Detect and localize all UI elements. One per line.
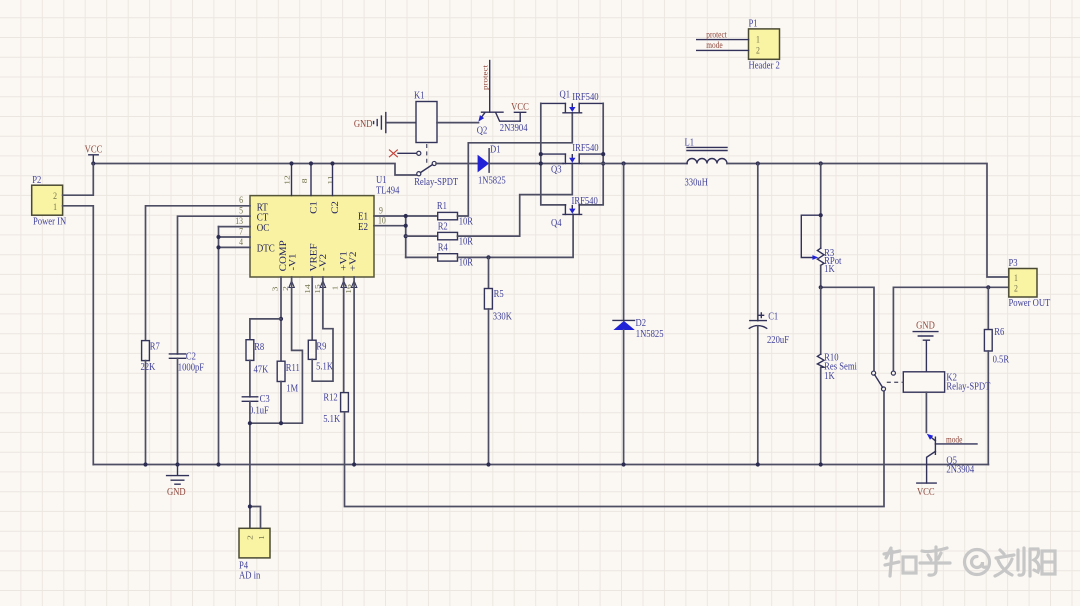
ground symbol (K1, rotated) xyxy=(354,113,386,133)
svg-text:TL494: TL494 xyxy=(376,185,400,197)
svg-text:14: 14 xyxy=(303,284,312,294)
wire P2 pin2 to VCC xyxy=(63,164,94,196)
svg-text:R11: R11 xyxy=(286,362,300,374)
svg-text:K1: K1 xyxy=(414,90,425,102)
connector P2 Power IN xyxy=(32,174,67,228)
svg-text:R1: R1 xyxy=(437,200,447,212)
svg-text:22K: 22K xyxy=(140,361,155,373)
svg-text:1: 1 xyxy=(257,535,266,540)
connector P3 Power OUT xyxy=(1009,257,1051,309)
svg-text:R12: R12 xyxy=(323,392,338,404)
wire to R8 xyxy=(250,319,281,340)
svg-text:1K: 1K xyxy=(824,370,835,382)
wire R9 loop to pin15 xyxy=(312,277,333,381)
no-connect X mark xyxy=(389,150,398,158)
transistor Q3 IRF540 xyxy=(551,142,599,175)
svg-text:GND: GND xyxy=(916,320,935,332)
svg-text:R5: R5 xyxy=(494,288,504,300)
svg-text:Power OUT: Power OUT xyxy=(1009,297,1051,309)
svg-text:VREF: VREF xyxy=(309,243,319,272)
svg-text:P2: P2 xyxy=(32,174,41,186)
U1 pin names top (rotated) xyxy=(309,201,340,214)
wire pin9 E1 row xyxy=(374,215,438,217)
svg-text:DTC: DTC xyxy=(257,243,275,255)
svg-text:1K: 1K xyxy=(824,263,835,275)
wire VCC rail to relay xyxy=(93,164,416,176)
svg-text:2: 2 xyxy=(756,45,760,56)
resistor R5 xyxy=(484,288,512,322)
wire R4 node to R5 xyxy=(486,255,490,259)
U1 pin names bottom (rotated) xyxy=(279,240,359,272)
svg-text:Relay-SPDT: Relay-SPDT xyxy=(414,176,458,188)
svg-text:VCC: VCC xyxy=(511,101,529,113)
svg-text:1: 1 xyxy=(1014,272,1018,283)
svg-text:IRF540: IRF540 xyxy=(572,142,598,154)
ground bus wire xyxy=(93,464,988,466)
svg-text:47K: 47K xyxy=(254,364,269,376)
wire X to switch throw xyxy=(398,152,417,154)
wire tie column xyxy=(405,216,407,257)
wire C2 to bus xyxy=(177,358,179,464)
dashed link K2 xyxy=(887,381,904,383)
svg-text:2N3904: 2N3904 xyxy=(500,122,528,134)
svg-text:R2: R2 xyxy=(438,221,448,233)
wire pin16 to bus xyxy=(353,277,355,465)
wire R3 bottom node xyxy=(821,287,874,371)
power port VCC (Q2) xyxy=(511,101,529,121)
wire R11 to node wire xyxy=(280,382,282,424)
wire Q1 left leg to left column xyxy=(541,102,566,104)
svg-text:Q2: Q2 xyxy=(477,125,488,137)
relay switch SPDT (K1) xyxy=(414,151,458,188)
svg-text:D1: D1 xyxy=(490,144,501,156)
wire R2 to Q3 gate xyxy=(458,164,573,237)
svg-text:2: 2 xyxy=(1014,283,1018,294)
svg-text:VCC: VCC xyxy=(85,144,103,156)
svg-text:protect: protect xyxy=(481,64,489,90)
wire pin5 CT to C2 xyxy=(178,216,251,354)
U1 pin names right xyxy=(358,211,368,233)
svg-text:-V2: -V2 xyxy=(319,254,329,271)
svg-text:Q3: Q3 xyxy=(551,164,562,176)
thermistor R10 Res Semi 1K xyxy=(817,287,857,466)
capacitor C2 xyxy=(169,351,204,374)
svg-text:1N5825: 1N5825 xyxy=(636,328,664,340)
wire node to P3 pin2 xyxy=(893,287,1008,371)
wire K2 to Q5 collector xyxy=(925,392,927,432)
svg-text:C1: C1 xyxy=(768,311,778,323)
svg-text:R7: R7 xyxy=(150,341,160,353)
U1 pin numbers right xyxy=(378,205,386,226)
wire R5 to bus xyxy=(488,309,490,465)
svg-text:10R: 10R xyxy=(459,257,474,269)
svg-text:COMP: COMP xyxy=(279,240,289,272)
connector P4 AD in xyxy=(239,528,270,581)
svg-text:2N3904: 2N3904 xyxy=(946,464,974,476)
svg-text:12: 12 xyxy=(282,175,291,184)
U1 pin numbers top (rotated) xyxy=(282,175,334,184)
svg-text:Header 2: Header 2 xyxy=(748,60,779,72)
svg-text:5.1K: 5.1K xyxy=(316,361,333,373)
relay coil K2 xyxy=(903,372,990,393)
svg-text:3: 3 xyxy=(270,287,279,292)
svg-text:0.5R: 0.5R xyxy=(993,354,1010,366)
svg-text:1000pF: 1000pF xyxy=(178,362,204,374)
svg-text:C1: C1 xyxy=(309,201,319,214)
capacitor C3 xyxy=(242,393,270,416)
svg-text:330uH: 330uH xyxy=(685,177,708,189)
svg-text:mode: mode xyxy=(706,41,723,51)
svg-text:mode: mode xyxy=(946,435,963,445)
svg-text:C3: C3 xyxy=(260,393,270,405)
svg-text:R9: R9 xyxy=(316,341,326,353)
transistor Q5 2N3904 xyxy=(927,434,975,483)
wire pin14 VREF to R9 xyxy=(311,277,313,340)
wire pin10 E2 xyxy=(374,225,406,227)
svg-text:C2: C2 xyxy=(331,201,341,214)
wire P2 pin1 to ground bus xyxy=(63,206,94,465)
resistor R9 xyxy=(308,340,333,373)
svg-text:11: 11 xyxy=(326,175,335,184)
svg-text:1N5825: 1N5825 xyxy=(478,175,506,187)
dashed link K1 to switch xyxy=(426,144,428,166)
wire L1 to P3 pin1 xyxy=(727,164,1009,278)
wire GND to K1 xyxy=(386,122,416,124)
diode D1 1N5825 xyxy=(478,144,506,187)
wire P4 pin2 jog xyxy=(250,507,261,529)
U1 pin names left xyxy=(257,202,275,255)
watermark 知乎 @刘阳 xyxy=(884,547,1055,576)
svg-text:1: 1 xyxy=(53,201,57,212)
svg-text:2: 2 xyxy=(53,190,57,201)
svg-text:P1: P1 xyxy=(748,18,757,30)
svg-text:Power IN: Power IN xyxy=(33,216,66,228)
wire switch pole to D1 xyxy=(436,163,478,165)
wire pin6 RT to R7 xyxy=(146,206,251,341)
svg-text:GND: GND xyxy=(167,486,186,498)
svg-text:+V1: +V1 xyxy=(339,251,349,271)
svg-text:Relay-SPDT: Relay-SPDT xyxy=(946,381,990,393)
wire R12 down to mode select line xyxy=(345,391,885,507)
svg-text:10R: 10R xyxy=(459,216,474,228)
wire Q3 legs xyxy=(541,153,603,155)
resistor R1 xyxy=(437,200,474,227)
svg-text:220uF: 220uF xyxy=(767,334,789,346)
wire protect to P1 xyxy=(697,39,749,41)
svg-text:OC: OC xyxy=(257,222,270,234)
U1 top pin wires 12,8,11 xyxy=(292,164,333,196)
resistor R11 xyxy=(277,361,300,395)
resistor R2 xyxy=(438,221,474,248)
wire Q1 right leg to right column xyxy=(579,102,603,104)
wire pin3 COMP column xyxy=(280,277,282,361)
svg-text:Q4: Q4 xyxy=(551,217,562,229)
svg-text:R8: R8 xyxy=(254,341,264,353)
wire K1 to Q2 emitter xyxy=(437,122,479,124)
svg-text:1: 1 xyxy=(330,286,339,291)
junction VCC rail xyxy=(91,161,95,165)
R3 wiper xyxy=(801,215,820,257)
resistor R4 xyxy=(438,242,474,269)
svg-text:2: 2 xyxy=(281,286,290,291)
svg-text:IRF540: IRF540 xyxy=(571,195,597,207)
wire R2 row xyxy=(406,235,438,237)
potentiometer R3 RPot 1K xyxy=(801,164,841,288)
relay switch SPDT (K2) xyxy=(872,371,896,391)
svg-text:R6: R6 xyxy=(994,326,1004,338)
power port VCC (Q5) xyxy=(917,483,936,498)
svg-text:GND: GND xyxy=(354,118,373,130)
svg-text:AD in: AD in xyxy=(239,570,260,582)
ground symbol GND (bus) xyxy=(167,465,189,499)
wire node y423 xyxy=(250,277,303,423)
U1 pin numbers bottom (rotated) xyxy=(270,284,352,294)
wire R8 to C3 xyxy=(249,360,251,396)
svg-text:P3: P3 xyxy=(1009,257,1018,269)
svg-text:IRF540: IRF540 xyxy=(572,91,598,103)
net label mode + wire xyxy=(935,443,977,445)
svg-text:1M: 1M xyxy=(286,383,298,395)
wire mode to P1 xyxy=(697,49,749,51)
inductor L1 330uH xyxy=(685,137,727,189)
left column xyxy=(541,103,566,204)
svg-text:5.1K: 5.1K xyxy=(323,413,340,425)
svg-text:VCC: VCC xyxy=(917,486,935,498)
svg-text:+V2: +V2 xyxy=(349,251,359,271)
svg-text:Q1: Q1 xyxy=(560,89,571,101)
capacitor C1 220uF xyxy=(749,164,789,467)
wire R1 to Q1 gate xyxy=(458,113,573,216)
U1 pin numbers left xyxy=(235,194,243,247)
svg-text:protect: protect xyxy=(706,30,727,40)
relay coil K1 xyxy=(414,90,437,143)
resistor R12 xyxy=(323,392,348,426)
wire R7 to bus xyxy=(145,361,147,465)
right column xyxy=(579,103,603,204)
svg-text:R4: R4 xyxy=(438,242,448,254)
op-amp U1 TL494 body xyxy=(250,174,400,277)
wire D1 to MOSFET rail xyxy=(489,163,563,165)
ground symbol GND (K2) xyxy=(913,320,938,372)
svg-text:-V1: -V1 xyxy=(288,253,298,270)
resistor R8 xyxy=(246,340,268,376)
diode D2 1N5825 xyxy=(613,164,664,467)
svg-text:0.1uF: 0.1uF xyxy=(249,405,269,417)
junctions top pins xyxy=(289,161,293,165)
resistor R6 0.5R xyxy=(984,287,1009,464)
svg-text:2: 2 xyxy=(245,535,254,540)
resistor R7 xyxy=(140,341,160,374)
transistor Q2 2N3904 xyxy=(477,112,528,137)
svg-text:6: 6 xyxy=(239,194,243,205)
connector P1 Header 2 xyxy=(748,18,779,72)
transistor Q4 IRF540 xyxy=(551,195,598,229)
wire pin1 to R12 xyxy=(343,277,345,393)
net label protect (vertical) + wire xyxy=(489,61,491,113)
wire C3 down to P4 xyxy=(249,401,251,528)
U1 bottom pin open arrows xyxy=(289,281,357,288)
svg-text:330K: 330K xyxy=(493,311,512,323)
wire R4 row xyxy=(406,256,438,258)
wires pins 13,7,4 tied to ground column xyxy=(219,227,251,248)
wire rail Q3 to L1 xyxy=(582,163,687,165)
transistor Q1 IRF540 xyxy=(560,89,599,113)
svg-text:8: 8 xyxy=(300,178,309,183)
svg-text:E2: E2 xyxy=(358,221,368,233)
wire R4 to Q4 gate xyxy=(458,214,574,257)
svg-text:1: 1 xyxy=(756,34,760,45)
svg-text:10R: 10R xyxy=(459,236,474,248)
